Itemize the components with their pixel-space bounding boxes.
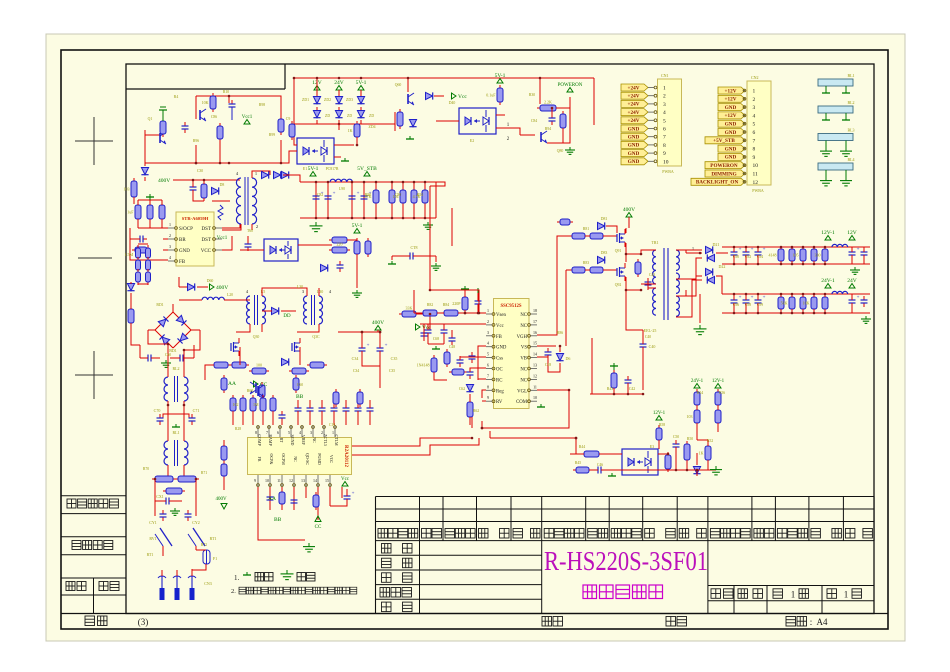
- svg-text:FB: FB: [496, 335, 502, 340]
- svg-text:105: 105: [793, 253, 799, 258]
- svg-text:GND: GND: [628, 143, 640, 149]
- svg-text:4: 4: [487, 341, 489, 346]
- svg-text:C19: C19: [329, 423, 335, 427]
- svg-text:F1: F1: [213, 556, 217, 561]
- svg-text:S/OCP: S/OCP: [179, 227, 193, 232]
- svg-text:R60: R60: [247, 389, 253, 393]
- svg-text:R72: R72: [201, 543, 207, 547]
- svg-text:33K: 33K: [406, 306, 413, 311]
- svg-text:400V: 400V: [372, 320, 384, 326]
- svg-text:VGH: VGH: [517, 335, 528, 340]
- svg-text:C94: C94: [757, 255, 763, 259]
- svg-text:Q92: Q92: [615, 283, 622, 287]
- svg-text:1: 1: [332, 430, 334, 435]
- svg-text:R83: R83: [583, 261, 589, 265]
- svg-text:R30: R30: [529, 93, 535, 97]
- svg-text:1K: 1K: [348, 128, 353, 133]
- svg-text:6: 6: [753, 130, 756, 136]
- svg-text:C35: C35: [389, 369, 395, 373]
- svg-text:10: 10: [265, 478, 269, 483]
- svg-text:CTLM: CTLM: [334, 434, 339, 446]
- svg-text:7: 7: [753, 138, 756, 144]
- svg-text:C98: C98: [745, 303, 751, 307]
- svg-text:9: 9: [254, 478, 256, 483]
- svg-text:12: 12: [289, 478, 293, 483]
- svg-text:C50: C50: [673, 435, 679, 439]
- svg-text:Vcc1: Vcc1: [217, 236, 228, 241]
- svg-text:1: 1: [487, 308, 489, 313]
- svg-text:BL4: BL4: [847, 157, 854, 162]
- svg-text:D40: D40: [449, 101, 456, 105]
- svg-text:PGMD: PGMD: [317, 453, 322, 465]
- svg-text:ZD: ZD: [347, 114, 352, 118]
- svg-text:4: 4: [299, 430, 301, 435]
- svg-text:C18: C18: [545, 363, 551, 367]
- svg-text:3: 3: [169, 244, 171, 249]
- svg-text:NC: NC: [293, 456, 298, 462]
- svg-text:L90: L90: [339, 187, 345, 191]
- svg-text:+: +: [763, 296, 766, 301]
- svg-text:1: 1: [844, 590, 849, 600]
- svg-text:400V: 400V: [215, 497, 227, 502]
- svg-text:RT1: RT1: [147, 553, 154, 557]
- svg-text:R-HS220S-3SF01: R-HS220S-3SF01: [544, 546, 708, 576]
- svg-text:PWBA: PWBA: [662, 169, 674, 174]
- svg-text:103: 103: [124, 187, 130, 192]
- svg-text:1.: 1.: [234, 574, 240, 582]
- svg-text:R2A20112: R2A20112: [343, 445, 348, 467]
- svg-text:Q60: Q60: [395, 83, 402, 87]
- svg-text:2.: 2.: [231, 588, 236, 595]
- svg-text:CY1: CY1: [149, 520, 157, 525]
- svg-text:POWERON: POWERON: [558, 83, 583, 88]
- svg-text:+: +: [739, 296, 742, 301]
- svg-text:Vcc: Vcc: [458, 94, 467, 100]
- svg-text:C46: C46: [597, 463, 603, 467]
- svg-text:PC817B: PC817B: [326, 167, 339, 171]
- svg-text:+5V_STB: +5V_STB: [713, 138, 735, 144]
- svg-text:+: +: [367, 344, 370, 349]
- svg-text:R45: R45: [575, 461, 581, 465]
- svg-text:BL3: BL3: [847, 128, 854, 133]
- svg-text:GND: GND: [628, 159, 640, 165]
- svg-text:400V: 400V: [216, 285, 228, 291]
- svg-text:EEL-25: EEL-25: [644, 328, 657, 333]
- svg-text:15: 15: [325, 478, 329, 483]
- svg-text:Vcc1: Vcc1: [242, 115, 253, 120]
- svg-text:GND: GND: [628, 151, 640, 157]
- svg-text:1M: 1M: [253, 402, 259, 407]
- svg-text:C82: C82: [317, 193, 323, 197]
- svg-text:+24V: +24V: [628, 94, 640, 100]
- svg-text:OC: OC: [496, 368, 503, 373]
- svg-text:C84: C84: [531, 119, 537, 123]
- svg-text:3: 3: [663, 102, 666, 108]
- svg-text:NC: NC: [520, 378, 527, 383]
- svg-text:11: 11: [277, 478, 281, 483]
- svg-text:6: 6: [487, 363, 489, 368]
- svg-text:2: 2: [663, 94, 666, 100]
- svg-text:8: 8: [255, 430, 257, 435]
- svg-text:5V_STB: 5V_STB: [357, 166, 377, 172]
- svg-text:VCC: VCC: [329, 455, 334, 464]
- svg-text:1: 1: [791, 590, 796, 600]
- svg-text:T60: T60: [247, 229, 253, 233]
- svg-text:Vcc: Vcc: [496, 324, 504, 329]
- svg-text:Q3C: Q3C: [312, 335, 320, 339]
- svg-text:11: 11: [753, 172, 759, 178]
- svg-text:GND: GND: [725, 122, 737, 128]
- svg-text:C40: C40: [645, 335, 651, 339]
- svg-text:100: 100: [256, 363, 262, 368]
- svg-text:BL1: BL1: [847, 73, 854, 78]
- svg-text:+: +: [352, 492, 355, 497]
- svg-text:24V-1: 24V-1: [821, 278, 835, 284]
- svg-text:1.5M: 1.5M: [124, 252, 133, 257]
- svg-text:400V: 400V: [158, 178, 170, 184]
- svg-text:220: 220: [337, 242, 343, 247]
- svg-text:+: +: [857, 296, 860, 301]
- svg-text:2: 2: [321, 430, 323, 435]
- svg-text:VB: VB: [520, 357, 527, 362]
- svg-text:+24V: +24V: [628, 118, 640, 124]
- svg-text:24V: 24V: [847, 278, 857, 284]
- svg-text:CN3: CN3: [204, 581, 212, 586]
- svg-text:Css: Css: [496, 357, 503, 362]
- svg-text:QD-SC: QD-SC: [305, 453, 310, 465]
- svg-text:SSC9512S: SSC9512S: [500, 304, 521, 309]
- svg-text:C48: C48: [449, 345, 455, 349]
- svg-text:12V-1: 12V-1: [712, 379, 725, 384]
- svg-text:5: 5: [487, 352, 489, 357]
- svg-text:+: +: [751, 248, 754, 253]
- svg-text:C35: C35: [391, 356, 398, 361]
- svg-text:RL1: RL1: [172, 430, 179, 435]
- svg-text:+12V: +12V: [725, 113, 737, 119]
- svg-text:Reg: Reg: [496, 389, 504, 394]
- svg-text:D83: D83: [601, 251, 608, 255]
- svg-text:7: 7: [663, 135, 666, 141]
- svg-text:R99: R99: [269, 133, 275, 137]
- svg-text:Q80: Q80: [557, 149, 564, 153]
- svg-text:6: 6: [663, 127, 666, 133]
- svg-text:17: 17: [533, 319, 537, 324]
- svg-text:R52: R52: [707, 439, 713, 443]
- svg-text:8: 8: [753, 147, 756, 153]
- svg-text:E3: E3: [650, 445, 654, 449]
- svg-text:C70: C70: [154, 408, 161, 413]
- svg-text:C96: C96: [733, 303, 739, 307]
- svg-text:R92: R92: [417, 193, 423, 197]
- svg-text:D8: D8: [220, 183, 225, 187]
- svg-text:VS: VS: [521, 346, 527, 351]
- svg-text:12V-1: 12V-1: [653, 411, 666, 416]
- svg-text:DST: DST: [202, 227, 211, 232]
- svg-text:9: 9: [663, 151, 666, 157]
- svg-text:E1: E1: [303, 167, 307, 171]
- svg-text:Vcc: Vcc: [341, 477, 350, 482]
- svg-text:CC: CC: [315, 525, 322, 530]
- svg-text:C40: C40: [649, 344, 656, 349]
- svg-text:R28: R28: [235, 427, 241, 431]
- svg-text:GND: GND: [496, 346, 507, 351]
- svg-text:102: 102: [233, 402, 239, 407]
- svg-text:AA: AA: [228, 381, 236, 387]
- svg-text:L30: L30: [297, 285, 303, 289]
- svg-text:10K: 10K: [803, 301, 810, 306]
- svg-text:GND: GND: [628, 135, 640, 141]
- svg-text:+: +: [357, 192, 360, 197]
- svg-text:R70: R70: [143, 467, 149, 471]
- svg-text:+: +: [763, 248, 766, 253]
- svg-text:C68: C68: [433, 337, 439, 341]
- svg-text:STR-A6059H: STR-A6059H: [182, 216, 209, 221]
- svg-text:ZD: ZD: [325, 114, 330, 118]
- svg-text:+24V: +24V: [628, 85, 640, 91]
- svg-text:R54: R54: [697, 391, 703, 395]
- svg-text:R81: R81: [583, 227, 589, 231]
- svg-text:OCP&: OCP&: [269, 454, 274, 466]
- svg-text:10: 10: [663, 159, 669, 165]
- svg-text:10: 10: [533, 395, 537, 400]
- svg-text:5: 5: [753, 122, 756, 128]
- svg-text:4: 4: [753, 113, 756, 119]
- svg-text:ZD3: ZD3: [346, 98, 353, 102]
- svg-text:9: 9: [487, 395, 489, 400]
- svg-text:C34: C34: [352, 356, 359, 361]
- svg-text:1uF: 1uF: [127, 210, 134, 215]
- svg-text:5V-1: 5V-1: [495, 73, 506, 79]
- svg-text:ZD1: ZD1: [302, 98, 309, 102]
- svg-text:+: +: [385, 344, 388, 349]
- svg-text:5: 5: [288, 430, 290, 435]
- svg-text:R58: R58: [659, 423, 665, 427]
- svg-text:1N4148: 1N4148: [417, 363, 430, 368]
- svg-text:NC: NC: [520, 313, 527, 318]
- svg-text:16: 16: [533, 330, 537, 335]
- svg-text:R50: R50: [687, 437, 693, 441]
- svg-text:1: 1: [663, 86, 666, 92]
- svg-text:R94: R94: [545, 127, 551, 131]
- svg-text:RC: RC: [496, 378, 502, 383]
- svg-text:12V: 12V: [847, 230, 857, 236]
- svg-text:C80: C80: [395, 193, 401, 197]
- svg-text:BD1: BD1: [156, 303, 163, 307]
- svg-text:+12V: +12V: [725, 88, 737, 94]
- svg-text:10K: 10K: [202, 100, 209, 105]
- svg-text:400V: 400V: [623, 207, 635, 213]
- svg-text:Q91: Q91: [615, 249, 622, 253]
- svg-text:AA: AA: [268, 496, 276, 502]
- svg-text:2: 2: [169, 233, 171, 238]
- svg-text:VCC: VCC: [201, 249, 212, 254]
- svg-text:C90: C90: [733, 255, 739, 259]
- svg-text:A4: A4: [817, 617, 828, 627]
- svg-text:L20: L20: [227, 293, 233, 297]
- svg-text:R96: R96: [193, 139, 199, 143]
- svg-text:2: 2: [753, 97, 756, 103]
- svg-text:C34: C34: [353, 369, 359, 373]
- svg-text:E2: E2: [470, 139, 474, 143]
- svg-text:C30: C30: [197, 169, 203, 173]
- svg-text:D60: D60: [207, 279, 214, 283]
- svg-text:COMP: COMP: [257, 434, 262, 446]
- svg-text:4148: 4148: [769, 253, 777, 258]
- svg-text:5: 5: [663, 118, 666, 124]
- svg-text:L5: L5: [261, 289, 265, 294]
- svg-text:R82: R82: [427, 303, 433, 307]
- svg-text:4: 4: [169, 255, 171, 260]
- svg-text:+: +: [751, 296, 754, 301]
- svg-text:C71: C71: [193, 408, 200, 413]
- svg-text:12: 12: [533, 373, 537, 378]
- svg-text:8: 8: [663, 143, 666, 149]
- svg-text:NC: NC: [520, 368, 527, 373]
- svg-text:R10: R10: [223, 90, 229, 94]
- svg-text::: :: [810, 617, 813, 627]
- svg-text:GND: GND: [725, 155, 737, 161]
- svg-text:C60: C60: [165, 353, 171, 357]
- svg-text:RT: RT: [279, 438, 284, 443]
- svg-text:5V-1: 5V-1: [308, 166, 319, 172]
- svg-text:24V: 24V: [334, 80, 344, 86]
- svg-text:TR1: TR1: [651, 240, 658, 245]
- svg-text:RV1: RV1: [149, 536, 156, 541]
- svg-text:8: 8: [487, 384, 489, 389]
- svg-text:1K: 1K: [699, 451, 704, 456]
- svg-text:5V-1: 5V-1: [352, 223, 363, 229]
- svg-text:ZD4: ZD4: [369, 125, 376, 129]
- svg-text:0.1uF: 0.1uF: [486, 93, 496, 98]
- svg-text:D21: D21: [713, 242, 720, 247]
- svg-text:BL2: BL2: [847, 100, 854, 105]
- svg-text:ZD2: ZD2: [324, 98, 331, 102]
- svg-text:14: 14: [533, 352, 537, 357]
- svg-text:C92: C92: [745, 255, 751, 259]
- svg-text:D6: D6: [566, 356, 571, 361]
- svg-text:R4: R4: [174, 95, 179, 99]
- svg-text:220P: 220P: [452, 301, 461, 306]
- svg-text:ZD: ZD: [369, 114, 374, 118]
- svg-text:BB: BB: [274, 517, 282, 523]
- svg-text:9: 9: [753, 155, 756, 161]
- svg-text:BB: BB: [296, 394, 304, 400]
- svg-text:R43: R43: [607, 387, 613, 391]
- svg-text:CT8: CT8: [410, 245, 417, 250]
- svg-text:CX1: CX1: [156, 494, 164, 499]
- svg-text:C43: C43: [649, 273, 655, 277]
- svg-text:11: 11: [533, 384, 537, 389]
- svg-text:VREF: VREF: [301, 435, 306, 446]
- svg-text:18: 18: [533, 308, 537, 313]
- svg-text:Vsen: Vsen: [496, 313, 506, 318]
- svg-text:RT1: RT1: [210, 536, 217, 541]
- svg-text:D22: D22: [719, 264, 726, 269]
- svg-text:1: 1: [753, 89, 756, 95]
- svg-text:103: 103: [687, 414, 693, 419]
- svg-text:RAMP: RAMP: [268, 434, 273, 446]
- svg-text:3: 3: [310, 430, 312, 435]
- svg-text:+24V: +24V: [628, 102, 640, 108]
- svg-text:C99: C99: [757, 303, 763, 307]
- svg-text:DD: DD: [283, 314, 291, 319]
- svg-text:COM: COM: [516, 400, 528, 405]
- svg-text:+24V: +24V: [628, 110, 640, 116]
- svg-text:12: 12: [753, 180, 759, 186]
- svg-text:12V-1: 12V-1: [821, 230, 835, 236]
- svg-text:VGL: VGL: [517, 389, 527, 394]
- svg-text:SGND: SGND: [290, 435, 295, 446]
- svg-text:R44: R44: [579, 445, 585, 449]
- svg-text:FB: FB: [179, 260, 186, 265]
- svg-text:GND: GND: [725, 146, 737, 152]
- svg-text:C62: C62: [459, 387, 465, 391]
- svg-text:GND: GND: [628, 126, 640, 132]
- svg-text:NC: NC: [312, 437, 317, 443]
- svg-text:2: 2: [256, 224, 258, 229]
- svg-text:3: 3: [753, 105, 756, 111]
- svg-text:R71: R71: [201, 471, 207, 475]
- svg-text:1: 1: [169, 222, 171, 227]
- svg-text:330: 330: [815, 253, 821, 258]
- svg-text:15: 15: [533, 341, 537, 346]
- svg-text:56K: 56K: [781, 301, 788, 306]
- svg-text:6: 6: [277, 430, 279, 435]
- svg-text:OCPM: OCPM: [281, 453, 286, 465]
- svg-text:CN1: CN1: [661, 73, 669, 78]
- svg-text:GND: GND: [725, 130, 737, 136]
- svg-text:+: +: [857, 248, 860, 253]
- svg-text:R98: R98: [259, 103, 265, 107]
- svg-text:R62: R62: [473, 409, 479, 413]
- svg-text:C86: C86: [211, 115, 217, 119]
- svg-text:R56: R56: [719, 391, 725, 395]
- svg-text:2.2K: 2.2K: [544, 100, 552, 105]
- svg-text:GND: GND: [179, 249, 190, 254]
- svg-text:ZCTL5: ZCTL5: [323, 434, 328, 446]
- svg-text:7: 7: [487, 373, 489, 378]
- svg-text:13: 13: [533, 363, 537, 368]
- svg-text:5V-1: 5V-1: [356, 80, 367, 86]
- svg-text:7: 7: [266, 430, 268, 435]
- svg-text:(3): (3): [138, 617, 149, 627]
- svg-text:+: +: [333, 192, 336, 197]
- svg-text:DST: DST: [202, 238, 211, 243]
- svg-text:L30: L30: [317, 289, 323, 294]
- svg-text:10: 10: [753, 163, 759, 169]
- svg-text:Q30: Q30: [253, 335, 260, 339]
- svg-text:GND: GND: [725, 105, 737, 111]
- svg-text:C42: C42: [629, 387, 635, 391]
- svg-text:PWBA: PWBA: [752, 188, 764, 193]
- svg-text:R84: R84: [443, 303, 449, 307]
- svg-text:1: 1: [255, 171, 257, 176]
- svg-text:+12V: +12V: [725, 97, 737, 103]
- svg-text:POWERON: POWERON: [710, 163, 738, 169]
- svg-text:13: 13: [301, 478, 305, 483]
- svg-text:+: +: [739, 248, 742, 253]
- svg-text:Q1: Q1: [148, 117, 153, 121]
- svg-text:BR: BR: [179, 238, 186, 243]
- svg-text:RL2: RL2: [172, 366, 179, 371]
- svg-text:24V-1: 24V-1: [691, 379, 704, 384]
- svg-text:C60: C60: [297, 383, 303, 387]
- svg-text:4: 4: [663, 110, 666, 116]
- svg-text:2: 2: [487, 319, 489, 324]
- svg-text:DIMMING: DIMMING: [711, 171, 736, 177]
- svg-text:R86: R86: [557, 331, 563, 335]
- svg-text:RV: RV: [496, 400, 503, 405]
